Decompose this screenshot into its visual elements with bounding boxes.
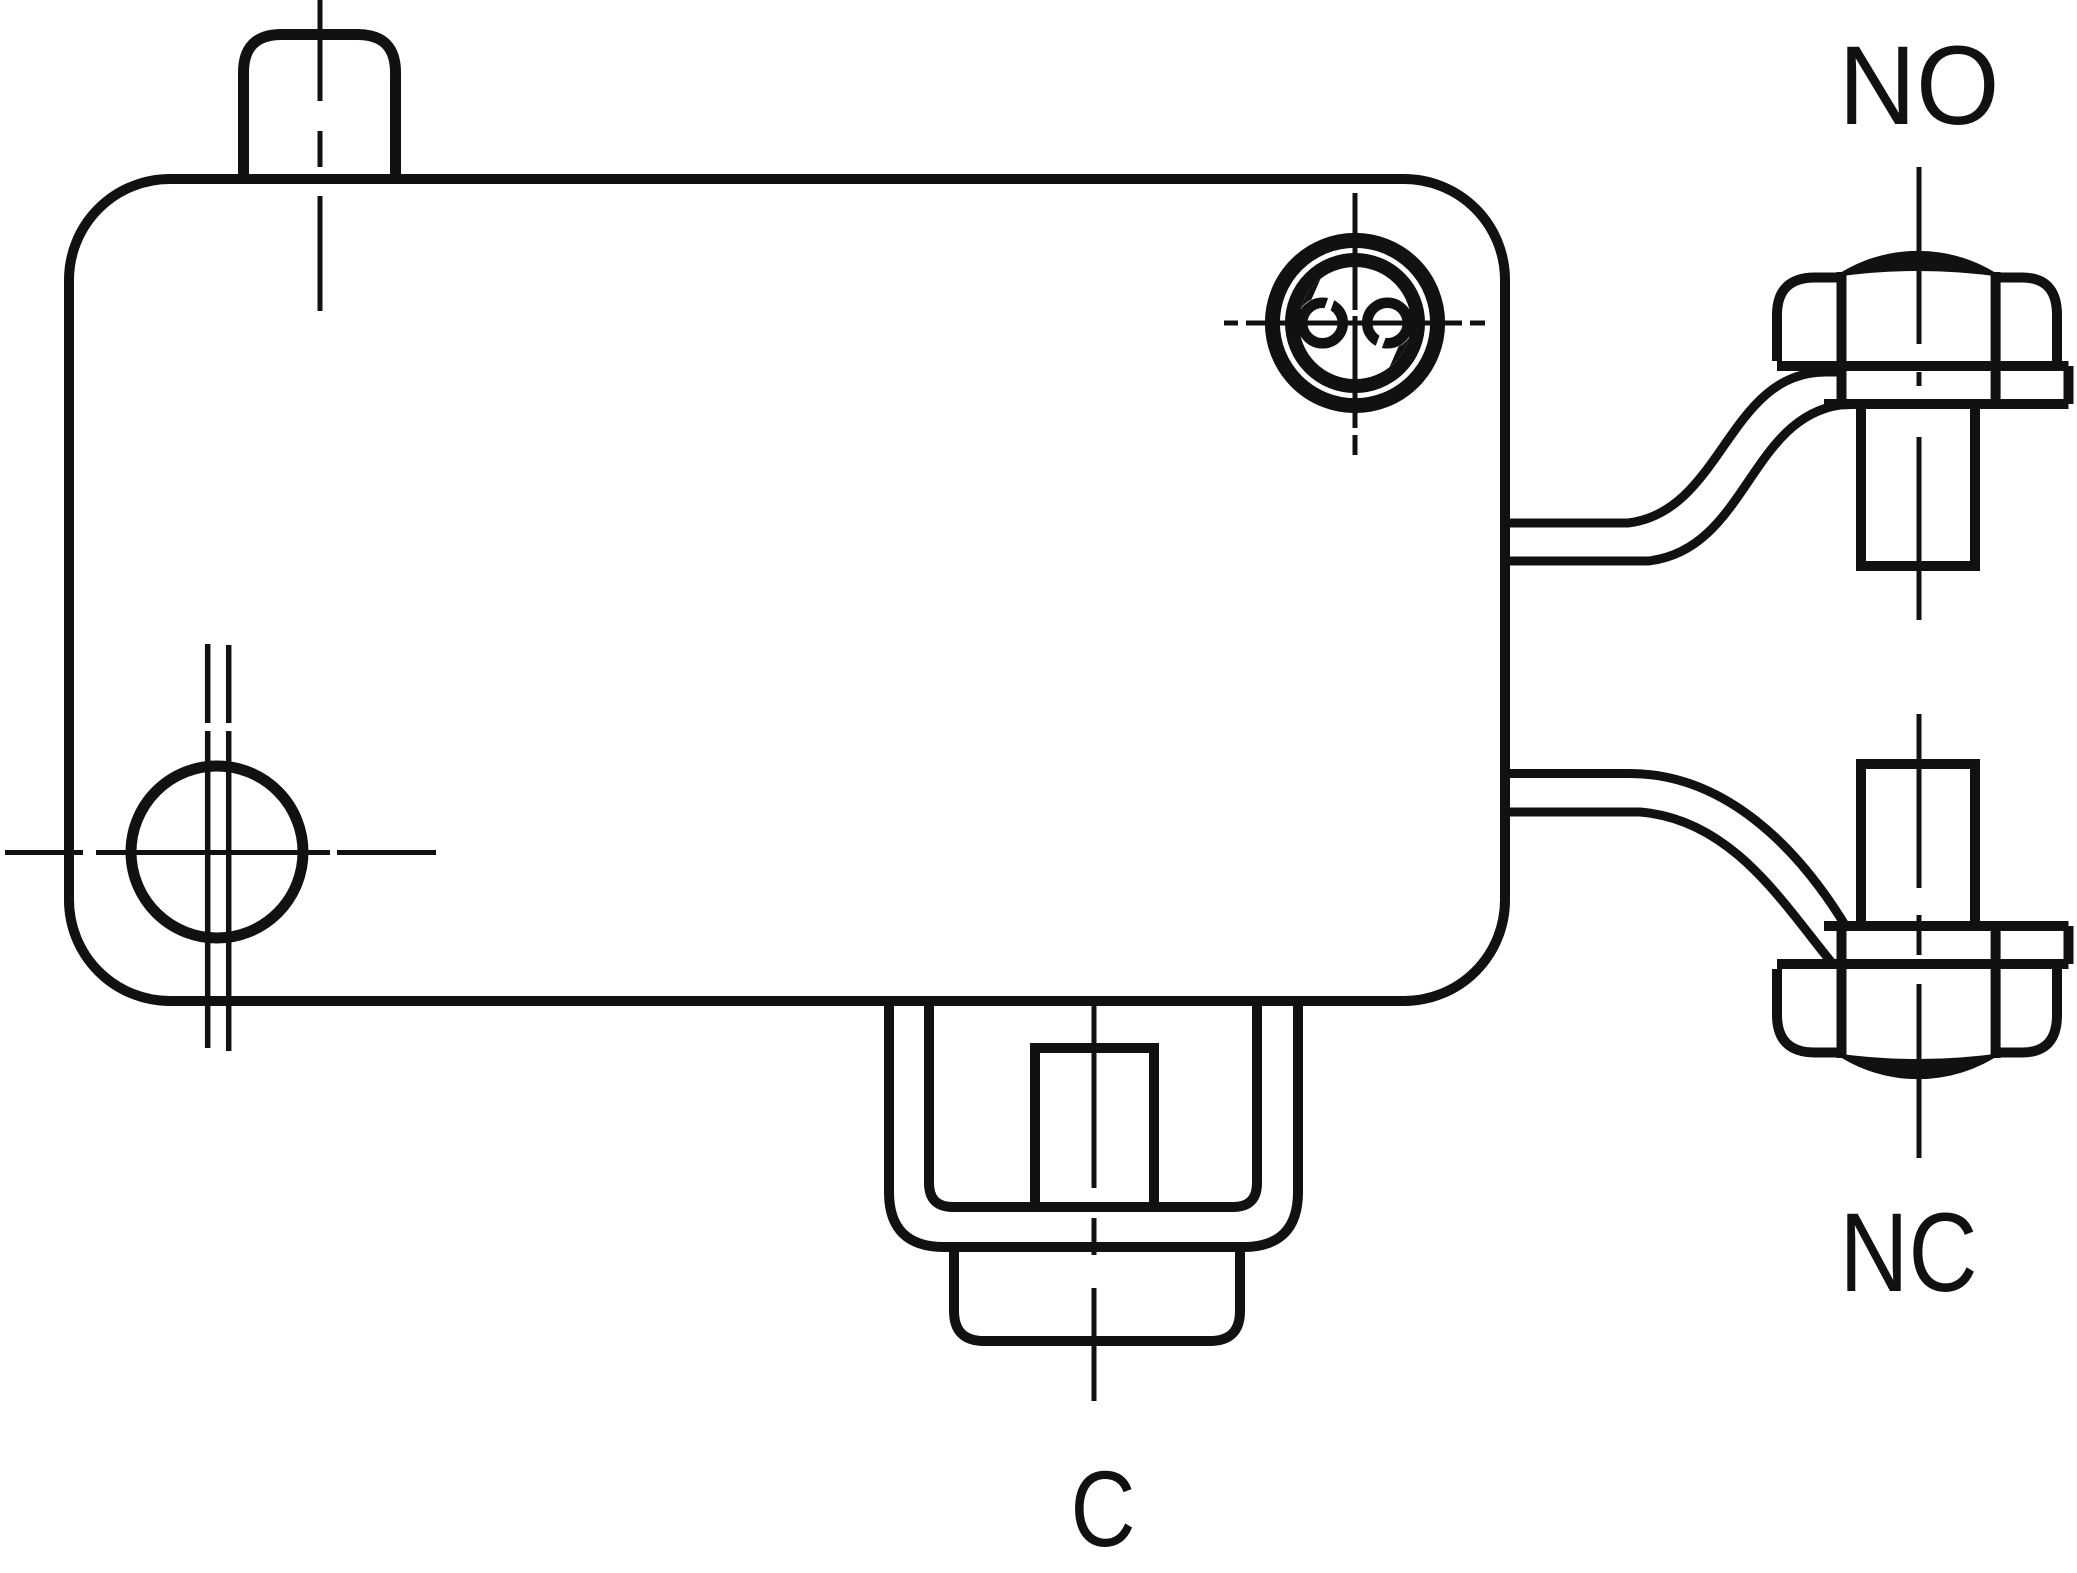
NC lead upper line xyxy=(1509,773,1845,925)
C terminal lower step xyxy=(954,1247,1240,1341)
bushing horizontal centerline xyxy=(1224,321,1485,326)
plunger xyxy=(244,35,396,177)
bushing left wire circle xyxy=(1302,303,1343,344)
NO screw terminal xyxy=(1777,251,2069,566)
svg-text:NC: NC xyxy=(1840,1190,1978,1315)
plunger centerline xyxy=(318,0,323,311)
bushing left circle slit xyxy=(1327,295,1333,311)
NO lead lower line xyxy=(1509,405,1852,562)
bushing right circle slit xyxy=(1377,335,1383,351)
bushing left wire tail xyxy=(1296,279,1320,328)
cable bushing inner ring xyxy=(1292,260,1418,386)
svg-text:NO: NO xyxy=(1839,23,2000,148)
bushing right wire tail xyxy=(1390,318,1414,367)
C terminal centerline xyxy=(1092,1003,1097,1401)
NO lead upper line xyxy=(1509,372,1841,523)
cable bushing outer ring xyxy=(1272,240,1437,405)
svg-text:C: C xyxy=(1071,1448,1136,1569)
NO screw centerline xyxy=(1917,167,1922,620)
switch body xyxy=(69,179,1505,1001)
bushing vertical centerline xyxy=(1353,193,1358,455)
NC screw terminal xyxy=(1777,764,2069,1079)
NC lead lower line xyxy=(1509,812,1832,963)
NC screw centerline xyxy=(1917,714,1922,1158)
C terminal outer cup xyxy=(889,999,1298,1247)
C terminal tab xyxy=(1035,1048,1154,1212)
C terminal inner cup xyxy=(929,999,1257,1207)
mounting hole horizontal centerline xyxy=(5,850,436,855)
bushing right wire circle xyxy=(1367,303,1408,344)
mounting hole double centerline left xyxy=(205,644,211,1048)
mounting hole double centerline right xyxy=(226,645,232,1051)
mounting hole xyxy=(131,766,303,938)
